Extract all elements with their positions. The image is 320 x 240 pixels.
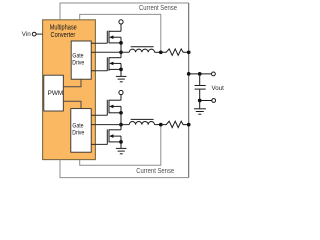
wire gate lead Q4	[91, 143, 107, 145]
transistor Q2 (phase 1 low side)	[107, 52, 121, 76]
node R1 to rail	[187, 50, 191, 54]
PWM block	[44, 75, 64, 111]
node phase 2	[119, 123, 123, 127]
inductor L1	[129, 47, 161, 53]
wire current sense bottom inner	[80, 125, 161, 166]
svg-text:Vin: Vin	[22, 31, 31, 38]
wire phase 2 node to inductor (switch node from gate drive)	[91, 124, 129, 126]
ground phase 1	[116, 76, 127, 81]
node R2 to rail	[187, 123, 191, 127]
svg-text:PWM: PWM	[48, 90, 64, 97]
wire output rail	[188, 3, 190, 178]
inductor L2	[129, 119, 161, 124]
svg-text:Drive: Drive	[72, 129, 85, 136]
node L2-R2 junction	[159, 123, 163, 127]
ground phase 2	[116, 148, 127, 153]
svg-text:Current Sense: Current Sense	[136, 168, 174, 175]
wire gate lead Q1	[91, 42, 107, 44]
svg-text:Gate: Gate	[72, 52, 84, 59]
terminal Vin	[32, 32, 36, 36]
svg-text:Current Sense: Current Sense	[139, 5, 177, 12]
svg-text:Vout: Vout	[212, 85, 225, 92]
node capacitor top	[198, 72, 202, 76]
terminal phase 2 top	[119, 90, 123, 94]
wire Vin lead	[36, 33, 43, 35]
wire current sense bottom outer	[60, 160, 189, 178]
gate drive block 1	[71, 41, 91, 79]
transistor Q3 (phase 2 high side)	[107, 95, 121, 125]
resistor R2 (current sense)	[161, 121, 189, 127]
wire gate lead Q2	[91, 70, 107, 72]
svg-text:Drive: Drive	[72, 59, 85, 66]
wire PWM to gate drive 2	[63, 101, 81, 108]
node phase 1	[119, 50, 123, 54]
wire current sense top inner (line B)	[80, 14, 161, 52]
transistor Q1 (phase 1 high side)	[107, 24, 121, 52]
wire Vout top lead	[189, 73, 212, 75]
svg-text:Multiphase: Multiphase	[50, 25, 77, 32]
terminal phase 1 top	[119, 20, 123, 24]
transistor Q4 (phase 2 low side)	[107, 125, 121, 149]
ground output	[194, 101, 206, 115]
multiphase converter block	[43, 20, 96, 160]
node capacitor bottom	[198, 99, 202, 103]
wire gate lead Q3	[91, 114, 107, 116]
gate drive block 2	[71, 109, 91, 153]
wire PWM to gate drive 1	[63, 79, 81, 87]
node rail to Vout	[187, 72, 191, 76]
terminal Vout plus	[212, 72, 216, 76]
svg-text:Converter: Converter	[51, 32, 76, 39]
capacitor C1	[195, 74, 206, 101]
wire phase 1 node to inductor (switch node from gate drive)	[91, 51, 129, 53]
wire current sense top outer (loop A)	[60, 3, 189, 20]
terminal Vout minus	[212, 99, 216, 103]
node L1-R1 junction	[159, 50, 163, 54]
resistor R1 (current sense)	[161, 49, 189, 55]
wire Vout bottom lead	[200, 100, 212, 102]
